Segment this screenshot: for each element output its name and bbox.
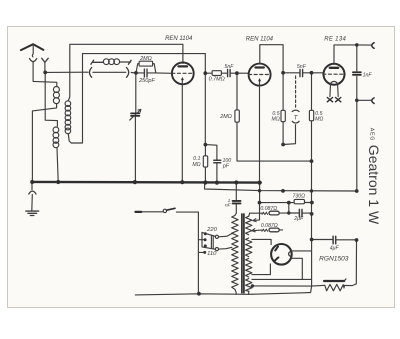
svg-text:220: 220 <box>206 227 217 233</box>
voltage selector 220/110 <box>198 239 203 241</box>
svg-text:pF: pF <box>222 163 230 169</box>
svg-text:0.087Ω: 0.087Ω <box>261 223 278 229</box>
tube V3 anode <box>330 67 338 69</box>
tube V2 grid <box>249 74 271 76</box>
resistor R9 0.087Ohm heater dropper 2 <box>253 229 261 232</box>
svg-text:5nF: 5nF <box>297 64 307 70</box>
wire antenna to coil L1 <box>33 62 57 87</box>
plug-in coil socket arcs and link <box>90 68 92 78</box>
wire grid lead from node A to plug-in coil <box>45 71 88 73</box>
wire coil L3 bottom to ground bus <box>57 148 58 182</box>
svg-text:REN 1104: REN 1104 <box>165 36 193 42</box>
svg-text:730Ω: 730Ω <box>292 194 305 200</box>
svg-text:AEG: AEG <box>368 128 374 141</box>
svg-text:1nF: 1nF <box>363 72 373 78</box>
coil L2 feedback winding <box>65 101 71 107</box>
svg-text:2μF: 2μF <box>293 216 304 222</box>
antenna socket <box>30 59 37 62</box>
right rail wire <box>356 45 358 191</box>
wire node B down to variable capacitor <box>135 73 137 113</box>
ground symbol <box>26 210 39 212</box>
resistor R4 0.7MOhm grid stopper <box>205 72 227 74</box>
svg-text:MΩ: MΩ <box>192 162 200 168</box>
wire tube V1 cathode to ground bus <box>181 84 183 181</box>
wire coil L1 bottom to ground bus <box>32 104 56 182</box>
svg-text:0.087Ω: 0.087Ω <box>260 206 277 212</box>
tube V2 REN1104 envelope <box>249 64 271 86</box>
wire secondary bottom to mains return <box>248 291 250 294</box>
svg-text:2MΩ: 2MΩ <box>139 56 152 62</box>
svg-text:5nF: 5nF <box>225 64 235 70</box>
RF choke of plug-in coil unit <box>91 60 103 64</box>
wire filament winding to rectifier <box>252 278 312 280</box>
capacitor C7 1nF <box>353 72 361 75</box>
heater return line <box>205 183 357 191</box>
variable capacitor C1 <box>131 113 139 116</box>
rectifier anode plates <box>275 247 279 261</box>
svg-text:RGN1503: RGN1503 <box>319 256 349 263</box>
loudspeaker terminal 1 <box>372 43 374 49</box>
loudspeaker terminal 2 <box>357 99 371 101</box>
wire coupling node down to node C <box>204 73 206 144</box>
svg-text:REN 1104: REN 1104 <box>246 36 274 42</box>
mains lead with switch S1 <box>136 211 142 213</box>
antenna tap plug <box>42 58 49 62</box>
capacitor C8 1nF across primary <box>235 183 237 201</box>
wire node D to capacitor C6 <box>283 72 299 74</box>
wire HV winding to rectifier anode 2 <box>252 264 271 275</box>
resistor R1 2MOhm grid leak V1 <box>136 64 156 73</box>
wire to grid node B <box>131 72 136 74</box>
tube V3 filament <box>330 81 338 84</box>
junction dots middle <box>204 143 359 193</box>
wire filament winding to output resistor <box>252 284 325 287</box>
tube V3 grid <box>323 73 345 75</box>
junction dots top row <box>43 43 358 102</box>
resistor R11 output bleeder <box>325 284 345 290</box>
wire tube V2 cathode to ground bus <box>259 86 261 183</box>
antenna <box>21 44 44 50</box>
transformer primary winding <box>232 216 238 290</box>
ground plug connector <box>31 183 33 190</box>
svg-text:0.7MΩ: 0.7MΩ <box>209 76 225 82</box>
wire plug to node A <box>44 62 46 72</box>
wire HV winding to rectifier anode 1 <box>252 239 271 244</box>
tube V1 anode <box>179 65 188 67</box>
junction dots power supply <box>197 201 358 296</box>
svg-text:2MΩ: 2MΩ <box>219 114 232 120</box>
resistor R8 0.087Ohm heater dropper 1 <box>250 212 262 214</box>
mains return line <box>135 286 311 295</box>
capacitor C10 4uF <box>312 239 357 241</box>
wire rectifier filament to B+ <box>291 250 311 252</box>
svg-text:MΩ: MΩ <box>272 117 280 123</box>
coil L1 antenna primary <box>53 87 59 93</box>
resistor R7 0.5MOhm grid leak V3 <box>311 73 313 191</box>
wire variable capacitor to ground bus <box>134 117 136 182</box>
resistor R3 0.1MOhm anode load <box>204 145 206 183</box>
wire bleeder to right rail <box>344 240 356 286</box>
capacitor C4 100pF <box>205 145 217 183</box>
filament terminal X marks <box>327 98 332 102</box>
B+ rail wire <box>311 191 313 286</box>
tube V2 anode <box>256 66 264 68</box>
tube V1 REN1104 envelope <box>172 63 194 85</box>
capacitor C5 5nF coupling <box>228 69 231 76</box>
filter network line <box>260 202 312 204</box>
svg-text:MΩ: MΩ <box>315 117 323 123</box>
ground bus <box>32 181 261 184</box>
wire tube V2 anode loop to node D <box>260 45 283 73</box>
svg-text:Geatron 1 W: Geatron 1 W <box>366 145 382 225</box>
capacitor C2 250pF grid <box>136 72 156 74</box>
wire primary bottom to mains return <box>235 289 236 294</box>
rectifier V4 RGN1503 envelope <box>271 244 292 265</box>
tube V2 cathode <box>259 81 261 85</box>
transformer secondary windings <box>246 216 252 235</box>
wire selector plug to transformer taps <box>219 234 232 237</box>
capacitor C9 2uF <box>288 203 290 213</box>
coil L3 coupling winding <box>53 127 59 133</box>
svg-text:RE 134: RE 134 <box>324 37 346 43</box>
svg-text:4μF: 4μF <box>330 245 340 251</box>
tube V3 RE134 envelope <box>324 64 345 85</box>
tube V3 filament leads <box>330 85 338 97</box>
wire tube V1 anode to coil L2 top (feedback loop) <box>68 44 183 101</box>
resistor R6 0.5MOhm anode load V2 <box>282 73 284 145</box>
wire node A down to coil L3 <box>45 72 57 126</box>
tube V1 grid <box>172 72 194 74</box>
resistor R10 730Ohm filter <box>294 199 304 203</box>
transformer core <box>242 214 244 293</box>
svg-text:250pF: 250pF <box>138 78 155 84</box>
wire heater tap stub <box>254 183 259 221</box>
capacitor C6 5nF coupling to V3 <box>300 69 303 76</box>
wire tube V3 anode to output terminal <box>334 45 371 64</box>
svg-text:110: 110 <box>207 251 217 257</box>
resistor R5 2MOhm grid leak V2 <box>237 73 311 161</box>
headphone jack T <box>295 76 297 107</box>
tube V1 cathode <box>181 80 183 84</box>
wire coil L2 bottom to coupling node <box>68 54 205 143</box>
rectifier filament <box>289 251 291 257</box>
wire secondary top to heater resistor row <box>249 213 250 216</box>
wire to tube V1 grid <box>156 72 172 74</box>
junction dots ground bus <box>30 180 262 185</box>
